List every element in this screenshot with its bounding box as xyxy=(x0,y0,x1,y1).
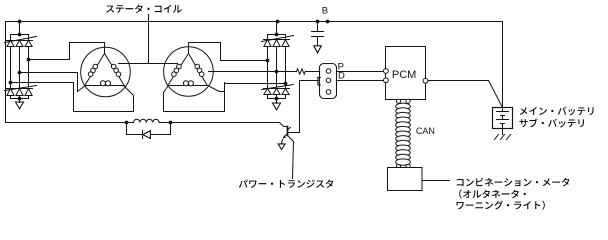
svg-text:B: B xyxy=(322,5,328,16)
svg-text:PCM: PCM xyxy=(392,69,416,81)
svg-text:D: D xyxy=(338,71,345,82)
svg-text:CAN: CAN xyxy=(416,126,435,136)
